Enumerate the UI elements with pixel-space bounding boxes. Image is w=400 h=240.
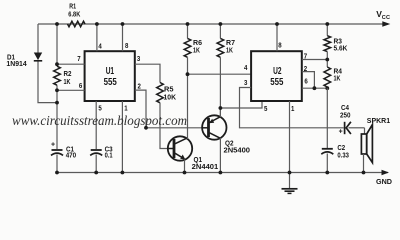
wire D1 branch	[38, 24, 57, 103]
pin 2 U1	[135, 82, 146, 128]
wire Q1 collector up to R6	[187, 74, 189, 139]
junction R3/R4 pin7	[325, 58, 329, 62]
wire Q2 collector to ground bus	[219, 138, 221, 173]
svg-text:555: 555	[270, 77, 284, 88]
pin 8 U1	[123, 24, 129, 51]
junction dots top rail	[55, 22, 329, 26]
svg-text:0.33: 0.33	[337, 150, 349, 159]
resistor R7 1K	[217, 24, 235, 117]
svg-text:7: 7	[77, 54, 80, 63]
resistor R3 5.6K	[324, 24, 348, 67]
junction R4 bottom / C2	[325, 86, 329, 90]
svg-text:+: +	[51, 142, 55, 149]
wire top Vcc rail	[38, 23, 388, 25]
svg-text:6: 6	[79, 81, 82, 90]
transistor Q1 2N4401	[167, 136, 218, 171]
svg-text:2: 2	[138, 82, 141, 91]
junction dots ground bus	[55, 171, 365, 175]
pin 7 U2	[302, 52, 328, 61]
resistor R4 1K	[324, 66, 343, 88]
svg-text:8: 8	[278, 41, 281, 50]
wire pin2 U1 to Q2 base	[146, 127, 202, 129]
svg-text:5.6K: 5.6K	[334, 43, 348, 52]
svg-text:GND: GND	[376, 177, 392, 186]
svg-text:5: 5	[264, 104, 268, 113]
pin 4 U2 label	[244, 63, 248, 72]
svg-text:7: 7	[304, 52, 307, 61]
junction Q2 emitter node	[219, 106, 223, 110]
pin 2 U2	[302, 64, 315, 88]
wire bottom ground bus	[57, 172, 388, 174]
pin 4 U1	[97, 24, 103, 51]
pin 5 U1 / C3 line	[96, 101, 102, 173]
svg-text:0.1: 0.1	[105, 151, 113, 160]
resistor R1 6.8K	[68, 2, 86, 27]
pin 6 U2	[302, 77, 328, 89]
svg-text:5: 5	[98, 104, 102, 113]
svg-text:2: 2	[304, 64, 307, 73]
svg-text:250: 250	[340, 110, 351, 119]
wire R6/Q1 collector to pin 4 U2	[188, 73, 252, 75]
capacitor C4 250	[339, 103, 365, 135]
svg-text:U2: U2	[273, 66, 282, 77]
junction pin2 corner	[144, 126, 148, 130]
svg-text:3: 3	[244, 78, 247, 87]
wire R5 to Q1 base	[160, 103, 167, 149]
svg-text:10K: 10K	[164, 92, 177, 101]
junction R6 bottom	[186, 72, 190, 76]
pin 1 U2	[290, 101, 296, 173]
pin 1 U1	[122, 101, 128, 173]
svg-text:www.circuitsstream.blogspot.co: www.circuitsstream.blogspot.com	[12, 114, 187, 129]
svg-text:1: 1	[291, 104, 295, 113]
svg-text:1N914: 1N914	[6, 59, 27, 68]
Vcc arrow and label	[376, 9, 390, 26]
svg-text:+: +	[339, 128, 343, 135]
capacitor C1 470	[51, 142, 76, 160]
svg-text:6.8K: 6.8K	[68, 9, 80, 18]
capacitor C3 0.1	[90, 144, 112, 159]
GND arrow and label	[376, 170, 392, 186]
svg-text:1: 1	[124, 104, 128, 113]
pin 3 U2 wire to C4/speaker	[240, 78, 344, 128]
svg-text:4: 4	[98, 41, 102, 50]
svg-text:SPKR1: SPKR1	[367, 116, 390, 125]
transistor Q2 2N5400	[202, 115, 250, 154]
diode D1 1N914	[6, 52, 42, 67]
pin 5 U2 wire to Q2 emitter	[220, 101, 268, 113]
watermark text	[12, 114, 187, 129]
svg-text:1K: 1K	[226, 45, 233, 54]
svg-text:6: 6	[304, 77, 307, 86]
svg-text:1K: 1K	[193, 45, 200, 54]
resistor R6 1K	[184, 24, 202, 74]
op-amp U2 555 box	[251, 51, 302, 101]
pin 8 U2	[277, 24, 282, 51]
svg-text:2N5400: 2N5400	[224, 145, 251, 154]
svg-text:4: 4	[244, 63, 248, 72]
resistor R2 1K	[54, 66, 72, 86]
wire Q2 emitter up to R7	[219, 108, 221, 117]
svg-text:8: 8	[125, 41, 128, 50]
op-amp U1 555 box	[85, 51, 135, 101]
svg-text:U1: U1	[106, 66, 115, 77]
svg-text:555: 555	[104, 77, 118, 88]
wire left node column	[56, 24, 58, 173]
pin 7 U1	[57, 54, 85, 64]
junction pin2/6 U2	[313, 86, 317, 90]
junction dots left column	[55, 62, 59, 104]
pin 3 U1	[135, 54, 160, 83]
svg-text:1K: 1K	[64, 77, 71, 86]
wire Q1 emitter to ground bus	[184, 159, 186, 172]
svg-text:CC: CC	[382, 15, 390, 21]
speaker SPKR1	[361, 116, 390, 173]
resistor R5 10K	[157, 83, 177, 103]
pin 6 U1	[57, 81, 85, 91]
svg-text:1K: 1K	[334, 73, 341, 82]
svg-text:3: 3	[137, 54, 140, 63]
svg-text:2N4401: 2N4401	[192, 162, 219, 171]
capacitor C2 0.33	[321, 88, 349, 172]
ground symbol	[282, 173, 298, 194]
svg-text:470: 470	[66, 151, 77, 160]
